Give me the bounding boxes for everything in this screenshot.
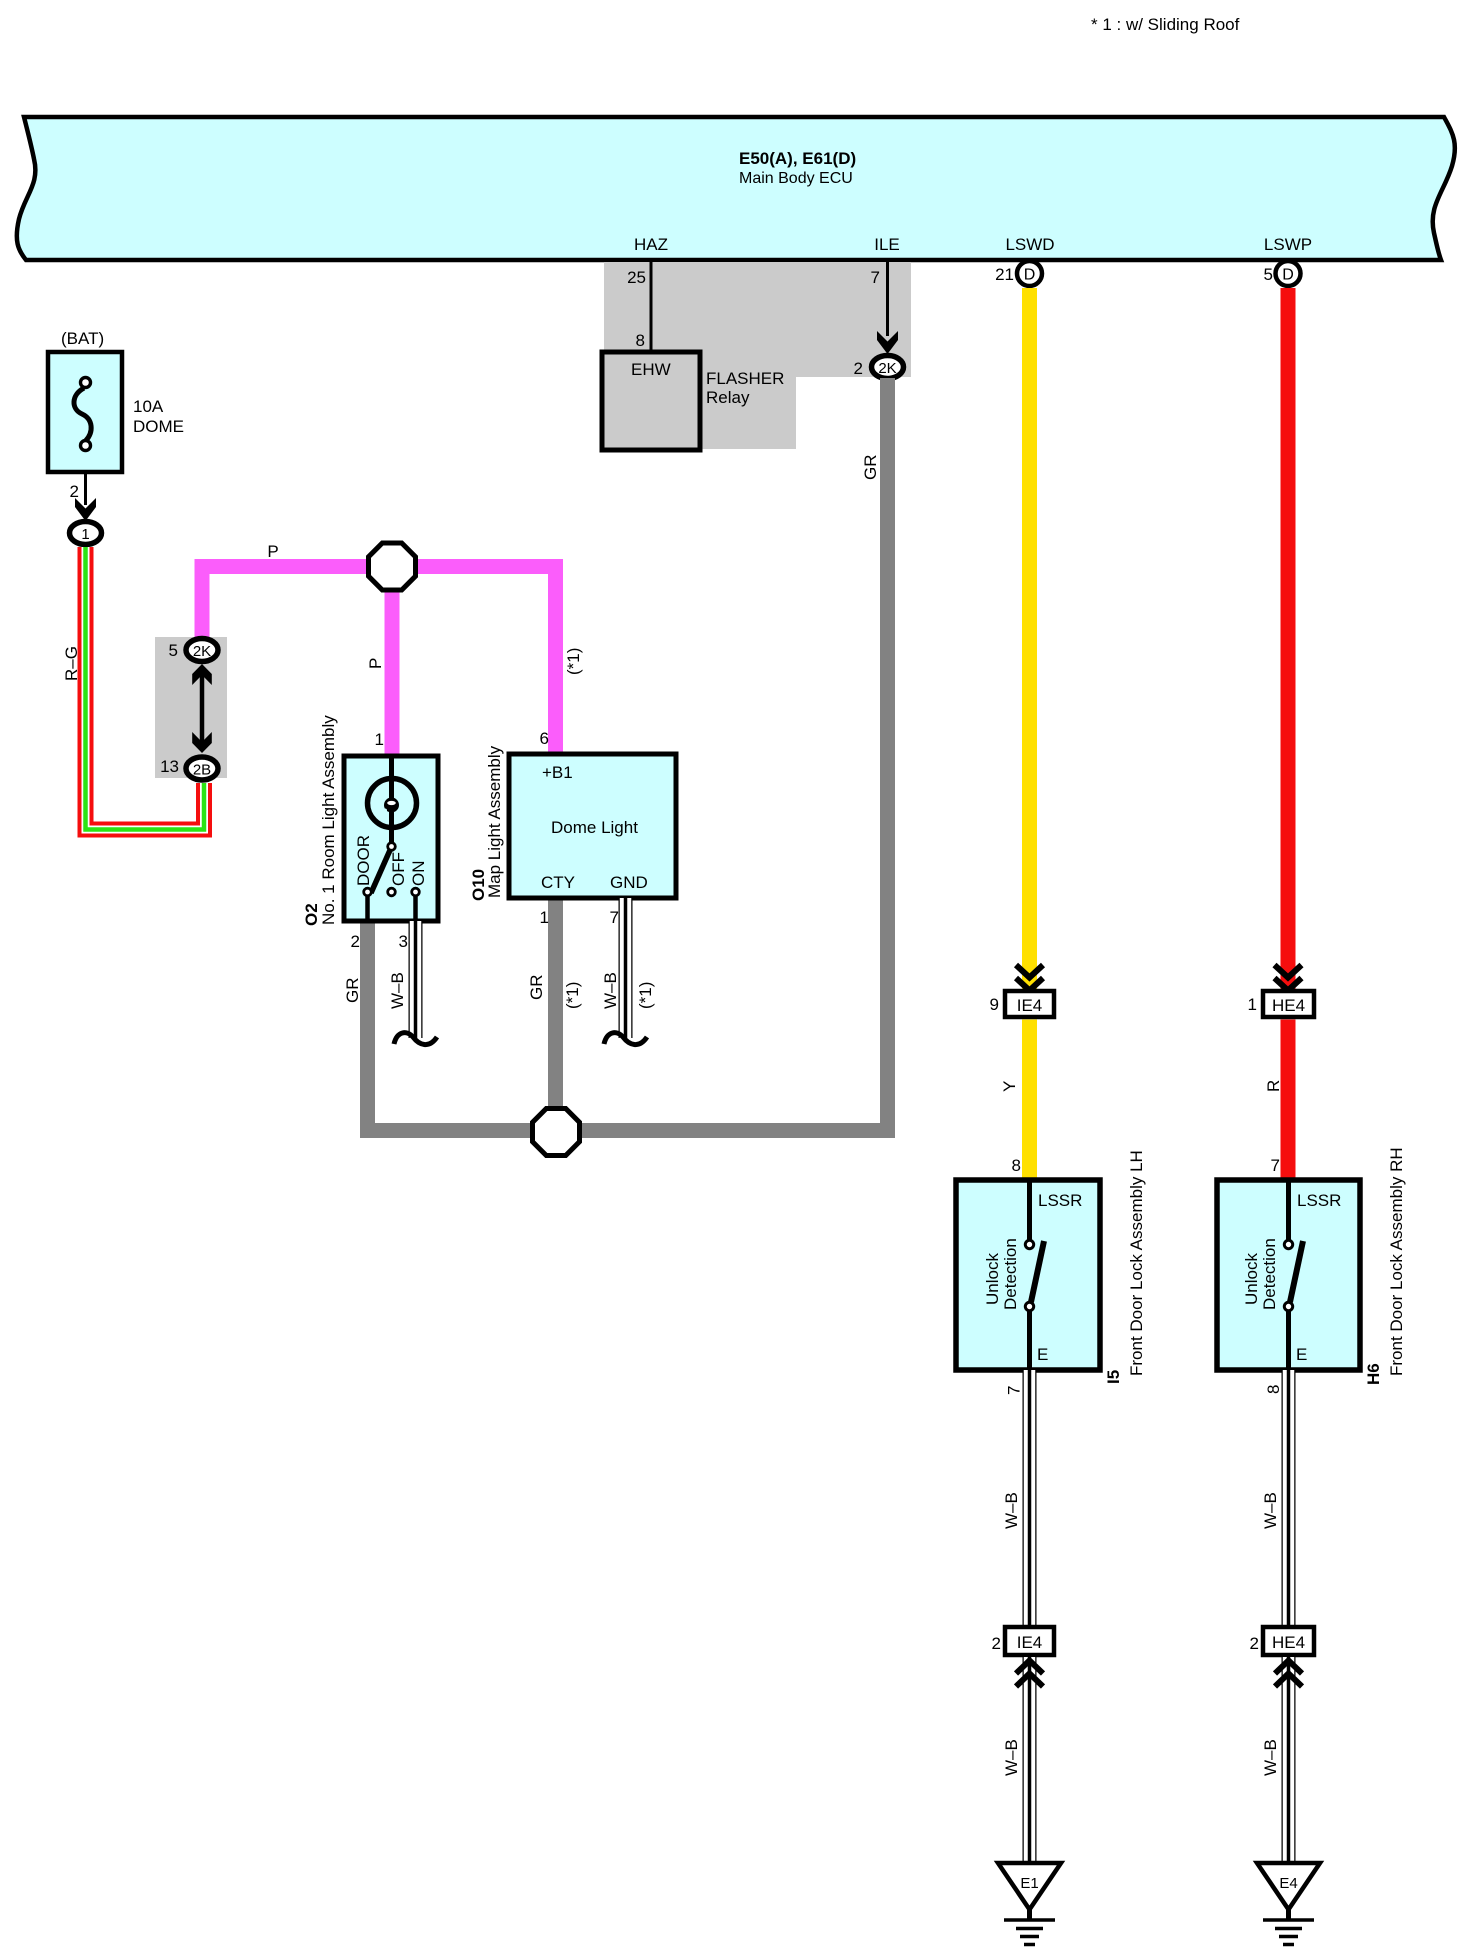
svg-text:Front Door Lock Assembly LH: Front Door Lock Assembly LH: [1127, 1150, 1146, 1376]
ground E4 triangle: [1257, 1863, 1320, 1910]
svg-text:Detection: Detection: [1260, 1238, 1279, 1310]
front door lock assembly LH box: [956, 1180, 1100, 1370]
wire ON contact to pin3: [413, 896, 418, 921]
svg-text:HE4: HE4: [1272, 996, 1305, 1015]
svg-text:H6: H6: [1364, 1363, 1383, 1385]
wire W-B from pin3: [409, 921, 423, 1038]
connector box IE4 (pin2): [1005, 1627, 1054, 1655]
svg-text:FLASHER: FLASHER: [706, 369, 784, 388]
wire W-B RH to ground: [1282, 1655, 1296, 1864]
svg-text:E50(A), E61(D): E50(A), E61(D): [739, 149, 856, 168]
svg-text:Main Body ECU: Main Body ECU: [739, 170, 853, 187]
gray connector block 2K/2B: [155, 637, 227, 778]
junction octagon (P wires): [369, 543, 416, 590]
wire R from LSWP to HE4: [1281, 288, 1296, 989]
gray flasher relay region: [604, 262, 911, 449]
svg-text:Unlock: Unlock: [1242, 1253, 1261, 1305]
lower contact LH: [1025, 1302, 1033, 1310]
wire contact to E pin LH: [1027, 1311, 1032, 1368]
svg-text:D: D: [1282, 267, 1294, 284]
wire fuse to connector 1: [84, 472, 87, 505]
connector circle D (LSWD 21): [1017, 261, 1042, 286]
ground bars E4: [1286, 1909, 1291, 1919]
svg-text:P: P: [366, 658, 385, 669]
squiggle end pin3: [394, 1033, 437, 1045]
svg-text:GR: GR: [343, 978, 362, 1004]
connector circle D (LSWP 5): [1276, 261, 1301, 286]
wire W-B RH to HE4: [1282, 1370, 1296, 1627]
wire W-B LH to IE4: [1023, 1370, 1037, 1627]
svg-text:W–B: W–B: [1002, 1492, 1021, 1529]
connector oval 2K: [186, 639, 218, 662]
svg-text:E1: E1: [1020, 1875, 1038, 1892]
wire Y from IE4 to door lock LH: [1022, 1020, 1037, 1181]
chevrons up on W-B LH: [1016, 1661, 1043, 1674]
wire LSSR to contact RH: [1286, 1182, 1291, 1240]
svg-text:DOOR: DOOR: [354, 835, 373, 886]
svg-text:8: 8: [1264, 1385, 1283, 1394]
wire R from HE4 to door lock RH: [1281, 1020, 1296, 1181]
arrowhead down at connector 1: [75, 498, 96, 521]
svg-text:13: 13: [160, 757, 179, 776]
svg-text:Map Light Assembly: Map Light Assembly: [485, 745, 504, 898]
svg-text:DOME: DOME: [133, 417, 184, 436]
switch arm: [371, 849, 391, 893]
svg-text:6: 6: [540, 729, 549, 748]
junction arrows between 2K and 2B: [200, 672, 205, 746]
svg-text:1: 1: [1248, 995, 1257, 1014]
contact OFF: [388, 888, 396, 896]
svg-text:ON: ON: [409, 861, 428, 887]
wire HAZ pin25 to EHW pin8: [650, 262, 653, 352]
wire contact to E pin RH: [1286, 1311, 1291, 1368]
svg-text:LSSR: LSSR: [1297, 1191, 1341, 1210]
svg-text:CTY: CTY: [541, 873, 575, 892]
svg-text:GR: GR: [527, 975, 546, 1001]
svg-text:1: 1: [540, 908, 549, 927]
svg-text:1: 1: [375, 730, 384, 749]
svg-text:9: 9: [990, 995, 999, 1014]
front door lock assembly RH box: [1217, 1180, 1360, 1370]
upper contact LH: [1025, 1240, 1033, 1248]
svg-text:Y: Y: [1000, 1081, 1019, 1092]
svg-text:7: 7: [1271, 1156, 1280, 1175]
connector oval 1: [70, 522, 102, 545]
arrowhead down at 2K: [877, 331, 898, 354]
connector oval 2B: [186, 757, 218, 780]
svg-text:8: 8: [1012, 1156, 1021, 1175]
chevrons up on W-B RH: [1275, 1661, 1302, 1674]
svg-text:No. 1 Room Light Assembly: No. 1 Room Light Assembly: [319, 715, 338, 925]
svg-text:7: 7: [610, 908, 619, 927]
svg-text:2: 2: [351, 932, 360, 951]
svg-text:5: 5: [1264, 265, 1273, 284]
svg-text:2: 2: [854, 359, 863, 378]
wire ILE pin7 to connector 2K: [886, 262, 889, 336]
chevrons down on Y wire: [1016, 965, 1043, 978]
svg-text:(*1): (*1): [636, 982, 655, 1009]
contact DOOR: [364, 888, 372, 896]
svg-text:W–B: W–B: [388, 972, 407, 1009]
svg-text:EHW: EHW: [631, 360, 671, 379]
svg-text:(*1): (*1): [564, 648, 583, 675]
svg-text:3: 3: [399, 932, 408, 951]
svg-text:2: 2: [1250, 1634, 1259, 1653]
ground bars E1: [1027, 1909, 1032, 1919]
svg-text:Relay: Relay: [706, 388, 750, 407]
svg-text:W–B: W–B: [601, 972, 620, 1009]
svg-text:+B1: +B1: [542, 763, 573, 782]
flasher relay box EHW: [602, 352, 700, 450]
wire P from 2K up across to dome light: [202, 567, 556, 755]
svg-text:LSSR: LSSR: [1038, 1191, 1082, 1210]
ECU band E50(A) E61(D) Main Body ECU: [17, 117, 1455, 260]
connector box IE4 (pin9): [1005, 991, 1054, 1017]
wire Y from LSWD to IE4: [1022, 288, 1037, 989]
svg-text:R: R: [1264, 1080, 1283, 1092]
svg-text:I5: I5: [1104, 1370, 1123, 1384]
wire W-B from GND pin7: [619, 898, 633, 1038]
switch arm LH: [1031, 1241, 1044, 1302]
svg-text:* 1 : w/ Sliding Roof: * 1 : w/ Sliding Roof: [1091, 15, 1240, 34]
upper contact RH: [1284, 1240, 1292, 1248]
wire W-B LH to ground: [1023, 1655, 1037, 1864]
svg-text:GND: GND: [610, 873, 648, 892]
junction octagon (gray wires): [533, 1109, 580, 1156]
wire pin1 to bulb: [389, 757, 394, 800]
svg-text:10A: 10A: [133, 397, 164, 416]
connector box HE4 (pin1): [1263, 991, 1314, 1017]
svg-text:7: 7: [871, 268, 880, 287]
wire P branch down to room light: [385, 567, 400, 756]
svg-text:Unlock: Unlock: [983, 1253, 1002, 1305]
wire DOOR contact to pin2: [365, 896, 370, 921]
wire bulb to switch pivot: [389, 812, 394, 843]
svg-text:E4: E4: [1279, 1875, 1297, 1892]
bulb filament loop: [384, 798, 399, 813]
wire LSSR to contact LH: [1027, 1182, 1032, 1240]
svg-text:D: D: [1024, 267, 1036, 284]
room light assembly box O2: [344, 756, 438, 921]
svg-text:W–B: W–B: [1261, 1492, 1280, 1529]
switch arm RH: [1290, 1241, 1303, 1302]
svg-text:P: P: [267, 542, 278, 561]
switch pivot contact: [388, 843, 396, 851]
svg-text:25: 25: [627, 268, 646, 287]
svg-text:8: 8: [636, 331, 645, 350]
connector oval 2K (ILE): [872, 356, 904, 379]
svg-text:GR: GR: [861, 455, 880, 481]
svg-text:7: 7: [1005, 1386, 1024, 1395]
squiggle end GND: [604, 1033, 647, 1045]
svg-text:Front Door Lock Assembly RH: Front Door Lock Assembly RH: [1387, 1147, 1406, 1376]
fuse symbol: [81, 378, 91, 388]
svg-text:Dome Light: Dome Light: [551, 818, 638, 837]
svg-text:2: 2: [992, 1634, 1001, 1653]
svg-text:HE4: HE4: [1272, 1633, 1305, 1652]
connector box HE4 (pin2): [1263, 1627, 1314, 1655]
bulb circle: [368, 779, 417, 828]
svg-text:W–B: W–B: [1261, 1739, 1280, 1776]
svg-text:IE4: IE4: [1017, 996, 1043, 1015]
wire R-G from connector 1 to 2B: [86, 547, 205, 830]
wire GR from 2K down, left along bottom, up to room light pin2: [368, 378, 888, 1131]
svg-text:IE4: IE4: [1017, 1633, 1043, 1652]
svg-text:5: 5: [169, 641, 178, 660]
svg-text:LSWP: LSWP: [1264, 235, 1312, 254]
svg-text:(*1): (*1): [563, 982, 582, 1009]
svg-text:2: 2: [70, 482, 79, 501]
svg-text:Detection: Detection: [1001, 1238, 1020, 1310]
contact ON: [412, 888, 420, 896]
fuse box 10A DOME: [48, 352, 122, 472]
svg-text:E: E: [1037, 1345, 1048, 1364]
svg-text:R–G: R–G: [62, 646, 81, 681]
svg-text:E: E: [1296, 1345, 1307, 1364]
chevrons down on R wire: [1275, 965, 1302, 978]
svg-text:1: 1: [81, 526, 89, 543]
dome light box O10: [509, 754, 676, 898]
lower contact RH: [1284, 1302, 1292, 1310]
svg-text:21: 21: [995, 265, 1014, 284]
svg-text:W–B: W–B: [1002, 1739, 1021, 1776]
ground E1 triangle: [998, 1863, 1061, 1910]
svg-text:2K: 2K: [193, 643, 211, 660]
svg-text:ILE: ILE: [874, 235, 900, 254]
svg-text:2B: 2B: [193, 762, 211, 779]
svg-text:OFF: OFF: [389, 852, 408, 886]
svg-text:2K: 2K: [878, 360, 896, 377]
wire GR vertical from dome CTY pin1: [548, 898, 563, 1131]
svg-text:HAZ: HAZ: [634, 235, 668, 254]
svg-text:LSWD: LSWD: [1005, 235, 1054, 254]
svg-text:(BAT): (BAT): [61, 329, 104, 348]
